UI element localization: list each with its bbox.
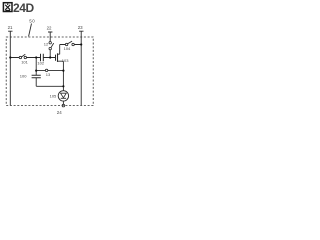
svg-text:101: 101 <box>21 60 28 65</box>
svg-text:103: 103 <box>62 58 69 63</box>
svg-text:13: 13 <box>46 72 51 77</box>
svg-text:23: 23 <box>78 25 83 30</box>
svg-text:22: 22 <box>47 26 52 31</box>
svg-text:102: 102 <box>37 61 44 66</box>
svg-text:104: 104 <box>64 46 71 51</box>
svg-text:50: 50 <box>29 19 35 24</box>
svg-text:100: 100 <box>20 73 27 78</box>
svg-text:12: 12 <box>44 41 49 46</box>
svg-text:21: 21 <box>8 25 13 30</box>
svg-text:105: 105 <box>50 94 57 99</box>
svg-text:24: 24 <box>57 110 62 115</box>
svg-text:24D: 24D <box>13 1 35 15</box>
